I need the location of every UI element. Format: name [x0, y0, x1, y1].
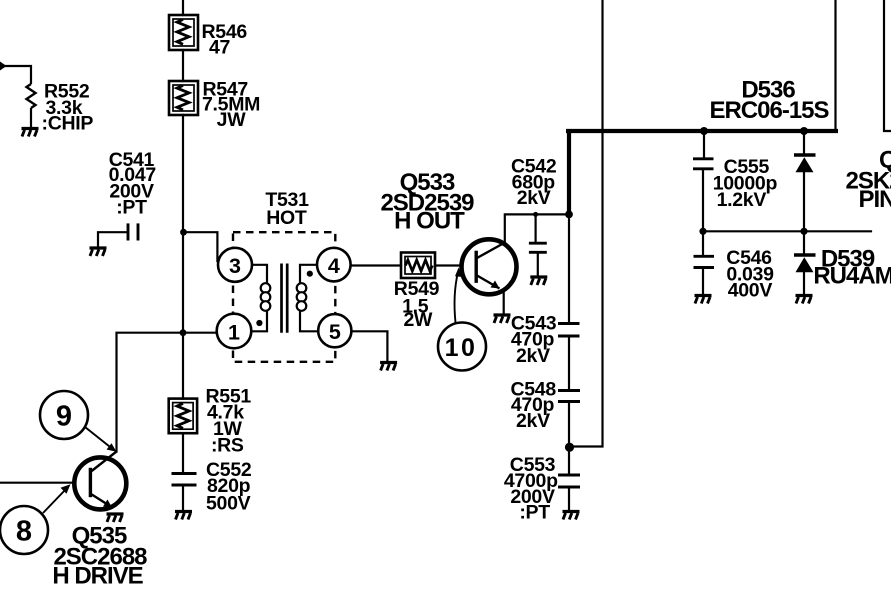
capacitor C548 [558, 391, 580, 402]
wire C555 from bus [703, 133, 705, 158]
label Q535 [52, 523, 147, 590]
node junction bus to C542 net [565, 211, 573, 219]
svg-text::PT: :PT [116, 196, 147, 218]
wire bus node down to C543 [568, 216, 570, 322]
label C552 [206, 459, 252, 515]
wire R546 to R547 [182, 50, 184, 81]
wire R552 to ground [30, 108, 32, 127]
diode D539 [794, 255, 816, 272]
pin 5 circle [318, 314, 351, 347]
callout 9 arrow [85, 427, 112, 449]
capacitor C553 [558, 475, 580, 487]
svg-text:PINC: PINC [859, 186, 891, 213]
svg-text::PT: :PT [519, 501, 550, 523]
ground (D539) [796, 296, 813, 304]
ground (Q533 emitter) [494, 315, 511, 323]
svg-text:HOT: HOT [266, 207, 307, 229]
transistor Q535 [74, 452, 126, 510]
callout 8 arrow [43, 488, 67, 513]
label C553 [504, 454, 558, 523]
wire diode D536 to node [803, 172, 805, 231]
label C546 [726, 247, 774, 301]
wire node to pin3 of T531 [184, 232, 217, 261]
capacitor C552 [172, 474, 197, 486]
svg-text::RS: :RS [211, 434, 244, 456]
svg-text:500V: 500V [206, 493, 251, 515]
capacitor C546 [694, 256, 715, 267]
svg-text:5: 5 [329, 320, 341, 344]
transformer core [282, 264, 288, 333]
transformer polarity dot primary [256, 320, 262, 326]
wire pin5 to ground [351, 331, 387, 361]
resistor R547 (boxed) [169, 81, 198, 115]
svg-text:JW: JW [217, 109, 247, 131]
node junction C542 top [533, 212, 538, 217]
svg-text:10: 10 [445, 334, 478, 362]
wire Q533 emitter to ground [503, 291, 505, 314]
wire C546 to ground [702, 269, 704, 294]
wire C541 left plate to ground [98, 232, 126, 247]
wire node to diode D539 [803, 231, 805, 253]
svg-text:2kV: 2kV [517, 187, 551, 209]
connector arrow at left edge [0, 62, 7, 71]
capacitor C543 [558, 324, 580, 337]
transformer polarity dot secondary [307, 271, 313, 277]
wire node to pin1 of T531 [183, 332, 217, 334]
wire corner of cut-off box top right [884, 0, 891, 131]
transformer T531 dashed box [233, 232, 335, 362]
ground (pin5) [380, 363, 397, 371]
callout circle 9 [40, 391, 88, 439]
node junction C555/C546 [699, 228, 706, 235]
svg-text:2W: 2W [403, 309, 433, 331]
label T531 [265, 189, 309, 229]
wire C548 to node [568, 403, 570, 448]
svg-text:1.2kV: 1.2kV [717, 189, 767, 211]
pin 4 circle [317, 248, 351, 282]
wire primary winding to pin1 [252, 311, 268, 331]
callout circle 10 [438, 323, 486, 371]
wire secondary winding bottom to pin5 [300, 311, 318, 331]
wire C555 to node [702, 170, 704, 231]
label C548 [510, 379, 556, 433]
wire R549 to Q533 base [435, 264, 476, 266]
label D539 [813, 245, 891, 289]
svg-text:47: 47 [209, 37, 230, 59]
svg-text:1: 1 [228, 320, 240, 344]
ground (Q535 emitter) [107, 514, 124, 522]
node junction diode column [800, 228, 807, 235]
callout circle 8 [0, 506, 48, 554]
transformer primary winding loops [261, 283, 271, 311]
wire mid horizontal net [703, 230, 871, 232]
svg-text:400V: 400V [728, 280, 773, 302]
svg-text:3: 3 [229, 254, 241, 278]
wire diode D539 to ground [803, 273, 805, 295]
node junction C548/C553 [565, 443, 574, 452]
node junction bus C555 [700, 127, 708, 135]
resistor R546 (boxed) [169, 15, 198, 50]
wire node left and down to Q535 collector [117, 333, 184, 452]
wire C543 to C548 [568, 338, 570, 390]
svg-text:H OUT: H OUT [394, 208, 465, 235]
ground (C546) [695, 296, 712, 304]
capacitor C555 [693, 159, 714, 169]
diode D536 [794, 155, 816, 172]
node junction at C541 [180, 229, 187, 236]
wire tall vertical line from top [571, 0, 603, 447]
transformer secondary winding loops [297, 283, 307, 311]
svg-text:H DRIVE: H DRIVE [52, 562, 143, 589]
capacitor C541 [128, 223, 138, 240]
ground (C541) [90, 248, 107, 256]
pin 3 circle [218, 248, 252, 282]
label R552 [42, 81, 94, 135]
thick bus vertical drop [567, 131, 571, 214]
svg-text:2kV: 2kV [516, 345, 550, 367]
svg-text:9: 9 [56, 401, 72, 433]
wire Q535 base from left edge [0, 482, 75, 484]
wire C553 to ground [568, 488, 570, 510]
wire top feed into R546 [182, 0, 184, 15]
ground (R552) [22, 129, 39, 137]
label R547 [202, 78, 260, 131]
wire pin4 to R549 [351, 264, 401, 266]
svg-text:RU4AM: RU4AM [813, 263, 891, 290]
wire node down to R551 [182, 333, 184, 399]
wire R551 to C552 [182, 433, 184, 471]
wire C552 to ground [182, 487, 184, 510]
wire C542 top [534, 214, 536, 242]
resistor R552 zigzag [27, 84, 36, 108]
wire R547 down to node C541 [182, 115, 184, 231]
svg-text:8: 8 [16, 516, 32, 548]
resistor R549 (boxed) [401, 253, 435, 279]
thick bus horizontal [566, 129, 838, 133]
wire arrow to R552 [4, 66, 31, 84]
svg-text:4: 4 [328, 254, 340, 278]
label C542 [511, 155, 557, 209]
label C541 [109, 149, 156, 219]
transistor Q533 [462, 239, 517, 294]
wire node down to C553 [568, 448, 570, 474]
ground (C552) [175, 512, 192, 520]
wire pin3 to primary winding [252, 265, 267, 283]
svg-text:2kV: 2kV [516, 410, 550, 432]
label Q536 cut off [846, 147, 891, 214]
svg-text::CHIP: :CHIP [42, 113, 94, 135]
pin 1 circle [217, 314, 252, 349]
wire secondary winding top to pin4 [300, 265, 317, 283]
ground (C553) [563, 512, 580, 520]
label R549 [394, 278, 440, 331]
label Q533 [380, 169, 474, 235]
wire bus to diode D536 [803, 133, 805, 153]
wire node down left rail [182, 232, 184, 333]
callout 10 arrow [454, 272, 458, 323]
wire vertical stub at x836 [834, 0, 836, 130]
node junction at pin1 rail [180, 329, 187, 336]
svg-text:ERC06-15S: ERC06-15S [709, 97, 829, 124]
wire Q533 collector up and right to bus [505, 214, 567, 242]
node junction bus diode D536 [800, 127, 808, 135]
wire C542 to ground [537, 254, 539, 276]
capacitor C542 [529, 243, 547, 252]
label R546 [202, 21, 248, 59]
label C543 [511, 313, 557, 367]
ground (C542) [530, 277, 547, 285]
label D536 [709, 77, 829, 124]
label C555 [713, 156, 778, 211]
label R551 [206, 385, 252, 456]
resistor R551 (boxed) [169, 399, 197, 434]
wire node to C546 [702, 231, 704, 255]
